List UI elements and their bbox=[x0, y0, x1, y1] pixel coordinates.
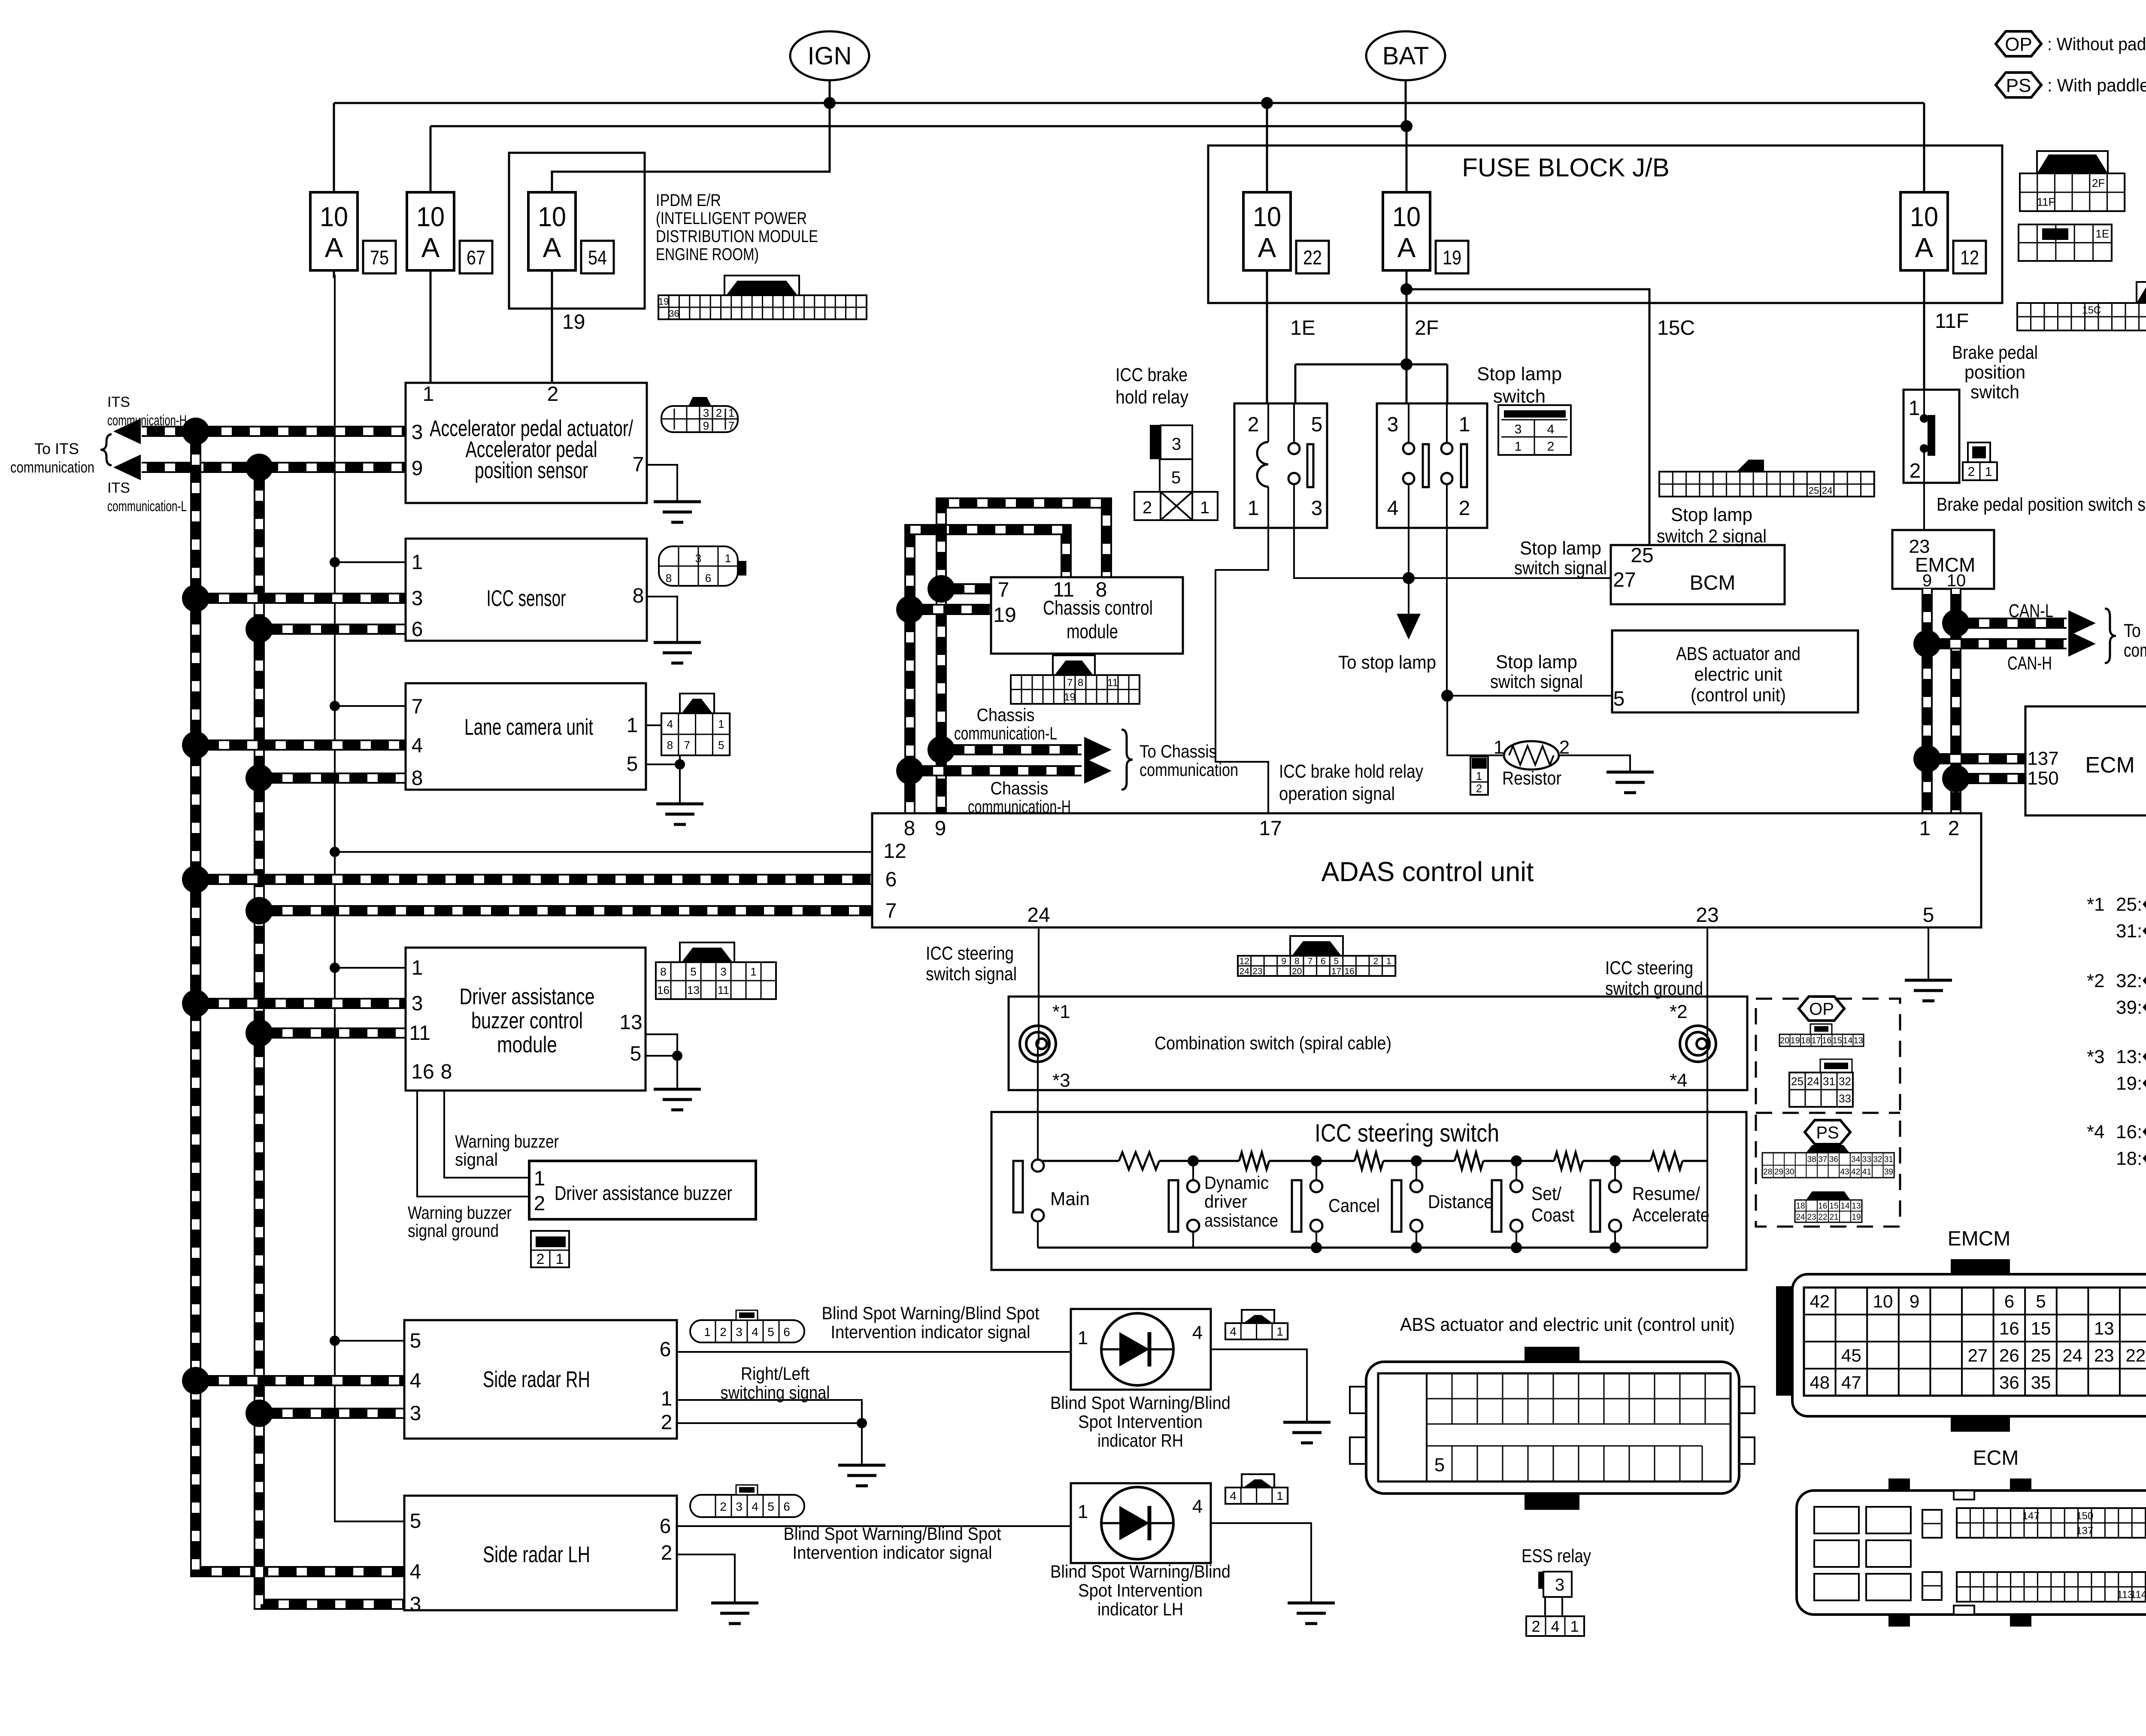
wire ICC sensor pin8 to ground bbox=[647, 597, 677, 642]
wire ADAS pin7 checkered stub bbox=[259, 905, 872, 916]
wire stop lamp pin2 to resistor bbox=[1447, 696, 1505, 755]
fuse 10A (19) bbox=[1406, 192, 1408, 278]
svg-text:4: 4 bbox=[1230, 1325, 1237, 1338]
svg-text:5: 5 bbox=[1334, 956, 1339, 966]
svg-text:FUSE BLOCK J/B: FUSE BLOCK J/B bbox=[1462, 153, 1669, 182]
connector PS wide grid bbox=[1806, 1145, 1849, 1153]
svg-text:13: 13 bbox=[687, 984, 700, 997]
legend OP symbol bbox=[1996, 31, 2041, 56]
svg-text:Side radar LH: Side radar LH bbox=[483, 1542, 590, 1567]
svg-text:BCM: BCM bbox=[1690, 572, 1736, 594]
svg-text:29: 29 bbox=[1774, 1167, 1783, 1176]
wire relay pin3 to BCM pin27 bbox=[1294, 528, 1611, 578]
wire ECM pin137 checkered stub bbox=[1927, 753, 2025, 764]
svg-text:24: 24 bbox=[1822, 485, 1832, 496]
junction ECM 137 bbox=[1913, 745, 1941, 773]
svg-text:ICC brake: ICC brake bbox=[1115, 364, 1188, 385]
resistor ladder zigzags bbox=[1119, 1152, 1159, 1169]
svg-text:4: 4 bbox=[1551, 1618, 1559, 1635]
wire stop lamp pin2 to ABS bbox=[1446, 528, 1448, 696]
svg-text:OP: OP bbox=[1809, 1000, 1834, 1018]
junction stop lamp pin2 ABS bbox=[1441, 690, 1453, 702]
junctions on bus2 bbox=[246, 454, 273, 481]
wire ADAS pin23 to combination switch bbox=[1706, 927, 1708, 1044]
brake pedal switch symbol bbox=[1923, 391, 1925, 416]
svg-text:6: 6 bbox=[660, 1338, 671, 1361]
svg-text:26: 26 bbox=[1999, 1345, 2019, 1366]
brace To ITS bbox=[100, 434, 112, 465]
connector lane camera grid bbox=[680, 694, 714, 713]
svg-text:2: 2 bbox=[661, 1411, 673, 1434]
connector stop lamp switch bbox=[1498, 405, 1571, 455]
svg-text:2: 2 bbox=[536, 1251, 545, 1267]
svg-text:13: 13 bbox=[619, 1011, 642, 1034]
junction CAN-H bbox=[1913, 630, 1941, 657]
wire accelerator pin7 to ground bbox=[647, 465, 677, 502]
svg-text:Distance: Distance bbox=[1428, 1191, 1493, 1212]
junction BAT bbox=[1400, 120, 1412, 132]
svg-text:10: 10 bbox=[538, 201, 566, 232]
wire ECM pin150 checkered stub bbox=[1956, 773, 2025, 784]
legend PS symbol bbox=[1996, 73, 2041, 97]
svg-text:1: 1 bbox=[750, 965, 756, 978]
svg-text:1E: 1E bbox=[2095, 227, 2109, 240]
svg-text:ICC steering switch: ICC steering switch bbox=[1315, 1119, 1499, 1147]
svg-text:1: 1 bbox=[1494, 737, 1504, 758]
svg-text:Blind Spot Warning/Blind Spot: Blind Spot Warning/Blind Spot bbox=[784, 1524, 1001, 1544]
wire chassis module pin19 stub bbox=[910, 604, 991, 615]
svg-text:7: 7 bbox=[998, 579, 1009, 601]
OP symbol in dashed box bbox=[1799, 997, 1844, 1021]
svg-text:19:: 19: bbox=[2116, 1073, 2142, 1094]
PS symbol in dashed box bbox=[1805, 1120, 1850, 1144]
wire buzzer module pin13/5 to ground bbox=[646, 1034, 677, 1056]
wire EMCM pin9 checkered bus bbox=[1922, 589, 1933, 813]
svg-text:1: 1 bbox=[627, 714, 638, 737]
svg-text:12: 12 bbox=[1960, 246, 1979, 269]
svg-text:22: 22 bbox=[1818, 1213, 1827, 1222]
svg-text:31:: 31: bbox=[2116, 921, 2142, 942]
wire 11F fuse12 to brake pedal position switch bbox=[1923, 275, 1925, 391]
spiral cable right bbox=[1680, 1026, 1716, 1062]
svg-text:communication-L: communication-L bbox=[954, 723, 1057, 743]
power source IGN bbox=[790, 31, 869, 80]
svg-text:43: 43 bbox=[1840, 1167, 1849, 1176]
svg-text:1: 1 bbox=[1476, 770, 1482, 782]
svg-text:2: 2 bbox=[1948, 817, 1960, 840]
ground accelerator bbox=[654, 502, 701, 522]
svg-text:Brake pedal: Brake pedal bbox=[1952, 342, 2038, 363]
svg-text:1: 1 bbox=[728, 406, 734, 419]
svg-text:25:: 25: bbox=[2116, 894, 2142, 915]
svg-text:communication-L: communication-L bbox=[107, 498, 187, 515]
svg-text:14: 14 bbox=[1840, 1202, 1850, 1211]
svg-text:18: 18 bbox=[1796, 1202, 1805, 1211]
junction chassis pin19 bbox=[896, 596, 924, 623]
connector PS lower grid bbox=[1806, 1191, 1850, 1200]
svg-text:Lane camera unit: Lane camera unit bbox=[464, 715, 593, 740]
diode indicator RH bbox=[1101, 1313, 1173, 1385]
svg-text:To stop lamp: To stop lamp bbox=[1338, 652, 1436, 673]
svg-text:operation signal: operation signal bbox=[1279, 783, 1395, 804]
svg-text:7: 7 bbox=[684, 739, 690, 751]
svg-text:34: 34 bbox=[1851, 1155, 1861, 1164]
svg-text:12: 12 bbox=[1240, 956, 1249, 966]
svg-text:39: 39 bbox=[1884, 1167, 1893, 1176]
svg-text:8: 8 bbox=[666, 572, 672, 585]
svg-text:IGN: IGN bbox=[807, 42, 852, 70]
svg-text:5: 5 bbox=[718, 739, 724, 751]
wire chassis communication-H arrow bbox=[910, 765, 1082, 776]
svg-text:1: 1 bbox=[1909, 397, 1920, 420]
svg-text:7: 7 bbox=[633, 453, 644, 476]
ground buzzer module bbox=[654, 1089, 701, 1110]
wire ADAS pin5 to ground bbox=[1928, 927, 1929, 980]
fuse 10A (75) bbox=[333, 192, 335, 278]
component Side radar LH box bbox=[404, 1496, 677, 1610]
svg-text:5: 5 bbox=[767, 1325, 774, 1339]
svg-text:28: 28 bbox=[1763, 1167, 1772, 1176]
wire relay pin1 to ADAS pin17 bbox=[1215, 528, 1268, 813]
connector EMCM big bbox=[1951, 1259, 2010, 1276]
svg-text:assistance: assistance bbox=[1204, 1210, 1278, 1230]
svg-text:4: 4 bbox=[752, 1325, 758, 1339]
svg-text:8: 8 bbox=[1294, 956, 1300, 966]
svg-text:*4: *4 bbox=[1670, 1070, 1688, 1091]
svg-text:7: 7 bbox=[1307, 956, 1312, 966]
svg-text:3: 3 bbox=[1387, 413, 1399, 436]
svg-text:CAN-L: CAN-L bbox=[2009, 600, 2053, 621]
connector buzzer bbox=[531, 1231, 569, 1267]
svg-text:module: module bbox=[1067, 620, 1118, 642]
svg-text:OP: OP bbox=[2005, 34, 2032, 55]
spiral cable left bbox=[1020, 1026, 1056, 1062]
svg-text:A: A bbox=[1915, 232, 1934, 263]
junction buzzer module ground bbox=[672, 1051, 682, 1061]
svg-text:Blind Spot Warning/Blind Spot: Blind Spot Warning/Blind Spot bbox=[822, 1303, 1040, 1323]
junction lane ground bbox=[675, 759, 685, 770]
svg-text:1: 1 bbox=[1276, 1325, 1283, 1338]
ground resistor bbox=[1606, 772, 1654, 793]
svg-text:Intervention indicator signal: Intervention indicator signal bbox=[793, 1542, 992, 1563]
brace to CAN bbox=[2105, 609, 2116, 663]
svg-text:: With paddle shifter: : With paddle shifter bbox=[2047, 75, 2146, 95]
connector 15C grid bbox=[2137, 285, 2146, 303]
svg-text:6: 6 bbox=[705, 572, 711, 585]
svg-text:27: 27 bbox=[1967, 1345, 1988, 1366]
svg-text:3: 3 bbox=[410, 1593, 421, 1616]
svg-text:1: 1 bbox=[704, 1325, 711, 1339]
svg-text:20: 20 bbox=[1292, 966, 1302, 976]
wire radar LH pin6 to indicator LH bbox=[677, 1525, 1071, 1527]
wire side radar RH pin3 checkered stub bbox=[259, 1408, 404, 1419]
wire fuse67 to accelerator pin1 bbox=[430, 275, 432, 383]
component ABS actuator and electric unit box bbox=[1612, 630, 1858, 712]
svg-text:9: 9 bbox=[1922, 571, 1932, 590]
svg-text:*3: *3 bbox=[1052, 1070, 1070, 1091]
svg-text:24: 24 bbox=[1240, 966, 1250, 976]
svg-text:Stop lamp: Stop lamp bbox=[1520, 538, 1601, 559]
component Driver assistance buzzer control module box bbox=[406, 948, 646, 1091]
connector 2F/11F grid bbox=[2037, 155, 2108, 173]
svg-text:11: 11 bbox=[409, 1022, 430, 1045]
svg-text:15: 15 bbox=[1829, 1202, 1838, 1211]
svg-text:buzzer control: buzzer control bbox=[471, 1008, 583, 1033]
svg-text:1: 1 bbox=[412, 551, 423, 574]
wire chassis bus B checkered bbox=[941, 503, 1106, 813]
wire resistor to ground bbox=[1559, 755, 1630, 772]
svg-text:23: 23 bbox=[1696, 904, 1719, 927]
svg-text:3: 3 bbox=[412, 587, 423, 610]
svg-text:2F: 2F bbox=[1415, 317, 1439, 339]
ground ADAS bbox=[1905, 980, 1952, 1001]
svg-text:16: 16 bbox=[1822, 1036, 1831, 1045]
wire radar LH pin2 to ground bbox=[677, 1554, 735, 1603]
svg-text:ECM: ECM bbox=[1973, 1447, 2019, 1469]
svg-text:1: 1 bbox=[1200, 498, 1209, 517]
component Accelerator pedal actuator box bbox=[406, 383, 647, 503]
svg-text:2: 2 bbox=[1248, 413, 1259, 436]
svg-text:Dynamic: Dynamic bbox=[1204, 1172, 1269, 1193]
relay coil bbox=[1257, 442, 1268, 487]
junction chassis comm-L bbox=[928, 736, 955, 763]
svg-text:9: 9 bbox=[1281, 956, 1286, 966]
svg-text:20: 20 bbox=[1780, 1036, 1789, 1045]
svg-text:4: 4 bbox=[1192, 1496, 1203, 1517]
svg-text:137: 137 bbox=[2076, 1525, 2093, 1536]
wire buzzer module pin1 supply stub bbox=[335, 967, 406, 969]
wire buzzer module pin8 to buzzer pin1 bbox=[444, 1091, 529, 1178]
connector ICC sensor oval bbox=[659, 546, 738, 586]
wire brake switch to EMCM bbox=[1923, 483, 1925, 530]
svg-text:*2: *2 bbox=[1670, 1001, 1688, 1022]
svg-text:4: 4 bbox=[1230, 1489, 1237, 1503]
svg-text:8: 8 bbox=[660, 965, 666, 978]
svg-text:8: 8 bbox=[633, 585, 644, 607]
dashed box OP/PS connectors bbox=[1756, 999, 1900, 1227]
svg-text:1: 1 bbox=[556, 1251, 564, 1267]
svg-text:3: 3 bbox=[412, 992, 423, 1015]
svg-text:Stop lamp: Stop lamp bbox=[1496, 651, 1577, 673]
svg-text:13:: 13: bbox=[2116, 1046, 2142, 1067]
svg-text:communication: communication bbox=[2124, 640, 2146, 661]
svg-text:114: 114 bbox=[2131, 1589, 2146, 1600]
svg-text:1: 1 bbox=[1276, 1489, 1283, 1503]
wire 1E fuse22 to ICC brake hold relay coil bbox=[1266, 275, 1268, 403]
wire bus to fuse 67 bbox=[430, 126, 432, 195]
svg-text:communication: communication bbox=[10, 458, 94, 476]
svg-text:6: 6 bbox=[783, 1500, 790, 1513]
svg-text:1: 1 bbox=[1078, 1501, 1088, 1522]
svg-text:EMCM: EMCM bbox=[1948, 1227, 2011, 1250]
svg-text:1: 1 bbox=[1985, 465, 1992, 479]
svg-text:2: 2 bbox=[547, 383, 559, 406]
svg-text:9: 9 bbox=[1910, 1291, 1919, 1312]
svg-text:5: 5 bbox=[1613, 688, 1625, 710]
svg-text:6: 6 bbox=[412, 618, 423, 641]
svg-text:3: 3 bbox=[410, 1402, 421, 1425]
connector resistor bbox=[1470, 757, 1488, 795]
svg-text:PS: PS bbox=[2006, 75, 2031, 96]
svg-text:15: 15 bbox=[2031, 1318, 2051, 1339]
arrow ITS communication-H bbox=[113, 418, 141, 444]
svg-text:137: 137 bbox=[2027, 748, 2058, 769]
relay contact bbox=[1288, 443, 1300, 454]
svg-text:switch: switch bbox=[1970, 382, 2019, 403]
wire stop lamp pin4 to BCM junction bbox=[1408, 528, 1409, 633]
component Lane camera unit box bbox=[406, 683, 646, 790]
svg-text:8: 8 bbox=[904, 817, 915, 840]
svg-text:2: 2 bbox=[1476, 782, 1482, 795]
component Stop lamp switch box bbox=[1377, 403, 1487, 528]
fuse block J/B box bbox=[1208, 145, 2002, 303]
arrow ITS communication-L bbox=[113, 454, 141, 480]
svg-text:Chassis: Chassis bbox=[991, 778, 1049, 798]
junction radar RH ground bbox=[857, 1418, 867, 1428]
svg-text:5: 5 bbox=[1171, 468, 1181, 487]
svg-text:42: 42 bbox=[1810, 1291, 1830, 1312]
svg-text:5: 5 bbox=[630, 1042, 642, 1065]
svg-text:A: A bbox=[543, 232, 561, 263]
svg-text:7: 7 bbox=[1067, 677, 1073, 688]
junction ECM 150 bbox=[1942, 765, 1970, 792]
svg-text:15: 15 bbox=[1833, 1036, 1842, 1045]
svg-text:2: 2 bbox=[1968, 465, 1975, 479]
svg-text:8: 8 bbox=[412, 767, 423, 790]
svg-text:Resume/: Resume/ bbox=[1632, 1183, 1700, 1204]
wire IGN bus horizontal bbox=[334, 102, 1924, 104]
svg-text:10: 10 bbox=[1910, 201, 1938, 232]
component ECM box bbox=[2025, 706, 2146, 815]
svg-text:Set/: Set/ bbox=[1531, 1183, 1562, 1204]
component Chassis control module box bbox=[991, 577, 1183, 654]
svg-text:6: 6 bbox=[885, 868, 897, 891]
wire ITS communication-H checkered bus bbox=[142, 426, 406, 437]
svg-text:Accelerate: Accelerate bbox=[1632, 1205, 1710, 1226]
wire BAT drop to fuse 19 bbox=[1406, 80, 1406, 195]
wire bus to fuse 22 bbox=[1266, 103, 1268, 195]
connector indicator RH bbox=[1242, 1310, 1274, 1323]
svg-text:5: 5 bbox=[1923, 904, 1934, 927]
svg-text:19: 19 bbox=[993, 604, 1016, 627]
svg-text:11F: 11F bbox=[1935, 310, 1969, 333]
svg-text:18:: 18: bbox=[2116, 1148, 2142, 1169]
svg-text:1: 1 bbox=[725, 552, 731, 565]
svg-text:To Chassis: To Chassis bbox=[1140, 741, 1217, 761]
svg-text:6: 6 bbox=[660, 1515, 671, 1538]
wire ICC sensor pin6 checkered stub bbox=[259, 624, 406, 635]
brace to chassis communication bbox=[1121, 730, 1133, 790]
connector BCM grid bbox=[1659, 472, 1874, 497]
svg-text:communication-H: communication-H bbox=[107, 412, 187, 429]
connector side radar LH oval bbox=[690, 1495, 804, 1517]
svg-text:36: 36 bbox=[669, 308, 679, 319]
svg-text:indicator RH: indicator RH bbox=[1097, 1430, 1183, 1451]
component ICC brake hold relay box bbox=[1234, 403, 1327, 528]
wire lane camera pins 1/5 to ground bbox=[646, 725, 680, 764]
svg-text:ECM: ECM bbox=[2085, 753, 2135, 778]
svg-text:24: 24 bbox=[1027, 904, 1050, 927]
svg-text:To ITS: To ITS bbox=[34, 440, 79, 457]
svg-text:25: 25 bbox=[1809, 485, 1819, 496]
ground ICC sensor bbox=[654, 642, 701, 663]
wire bus to fuse 75 bbox=[333, 103, 335, 195]
svg-text:31: 31 bbox=[1884, 1155, 1893, 1164]
svg-text:150: 150 bbox=[2076, 1510, 2093, 1522]
wire CAN-L arrow bbox=[1956, 618, 2067, 629]
svg-text:*1: *1 bbox=[2087, 894, 2105, 915]
svg-text:6: 6 bbox=[783, 1325, 790, 1339]
svg-text:(control unit): (control unit) bbox=[1691, 685, 1786, 706]
svg-text:13: 13 bbox=[1852, 1202, 1861, 1211]
svg-text:3: 3 bbox=[703, 406, 709, 419]
wire IGN drop to bus bbox=[829, 80, 831, 103]
ground indicator RH bbox=[1283, 1422, 1331, 1443]
wire to ABS pin5 bbox=[1447, 695, 1612, 697]
wire chassis communication-L arrow bbox=[941, 744, 1082, 755]
ICC switch resistor ladder rail bbox=[1038, 1160, 1119, 1162]
svg-text:23: 23 bbox=[1909, 536, 1930, 557]
svg-text:indicator LH: indicator LH bbox=[1097, 1599, 1183, 1619]
svg-text:ABS actuator and: ABS actuator and bbox=[1676, 643, 1800, 664]
svg-text:17: 17 bbox=[1812, 1036, 1821, 1045]
wire buzzer module pin16 to buzzer pin2 bbox=[417, 1091, 529, 1197]
connector buzzer module grid bbox=[680, 942, 734, 962]
svg-text:2: 2 bbox=[720, 1325, 727, 1339]
svg-text:*3: *3 bbox=[2087, 1046, 2105, 1067]
svg-text:42: 42 bbox=[1851, 1167, 1860, 1176]
svg-text:3: 3 bbox=[1555, 1575, 1564, 1594]
svg-text:switch 2 signal: switch 2 signal bbox=[1657, 526, 1767, 547]
svg-text:4: 4 bbox=[410, 1560, 421, 1583]
svg-text:2: 2 bbox=[1910, 460, 1921, 482]
wire ICC sensor pin3 checkered stub bbox=[196, 593, 406, 604]
svg-text:2: 2 bbox=[661, 1542, 673, 1564]
wire side radar RH pin4 checkered stub bbox=[196, 1375, 404, 1386]
svg-text:3: 3 bbox=[695, 552, 701, 565]
junction stop lamp signal bbox=[1403, 572, 1415, 584]
svg-text:Coast: Coast bbox=[1531, 1205, 1574, 1226]
svg-text:23: 23 bbox=[1252, 966, 1262, 976]
fuse 10A (22) bbox=[1266, 192, 1268, 278]
ground indicator LH bbox=[1288, 1603, 1335, 1624]
junction chassis pin7 bbox=[928, 575, 955, 603]
svg-text:2: 2 bbox=[534, 1192, 546, 1215]
svg-text:10: 10 bbox=[1253, 201, 1281, 232]
IPDM connector 19/36 grid bbox=[724, 276, 799, 295]
svg-text:17: 17 bbox=[1259, 817, 1282, 840]
component Blind Spot indicator RH box bbox=[1071, 1309, 1211, 1390]
svg-text:5: 5 bbox=[410, 1510, 421, 1533]
svg-text:32:: 32: bbox=[2116, 970, 2142, 991]
junction CAN-L bbox=[1942, 609, 1970, 637]
component Resistor bbox=[1504, 741, 1559, 770]
svg-text:24: 24 bbox=[1807, 1075, 1819, 1088]
svg-text:33: 33 bbox=[1839, 1092, 1851, 1105]
svg-text:30: 30 bbox=[1785, 1167, 1794, 1176]
svg-text:39:: 39: bbox=[2116, 997, 2142, 1018]
svg-text:IPDM E/R: IPDM E/R bbox=[656, 191, 721, 210]
svg-text:module: module bbox=[497, 1032, 557, 1057]
svg-text:16: 16 bbox=[657, 984, 670, 997]
svg-text:A: A bbox=[325, 232, 343, 263]
svg-text:1: 1 bbox=[1078, 1327, 1088, 1348]
svg-text:27: 27 bbox=[1613, 569, 1636, 591]
svg-text:Spot Intervention: Spot Intervention bbox=[1078, 1580, 1203, 1600]
svg-text:4: 4 bbox=[410, 1369, 421, 1392]
component Brake pedal position switch box bbox=[1904, 390, 1959, 483]
svg-text:hold relay: hold relay bbox=[1115, 387, 1188, 408]
